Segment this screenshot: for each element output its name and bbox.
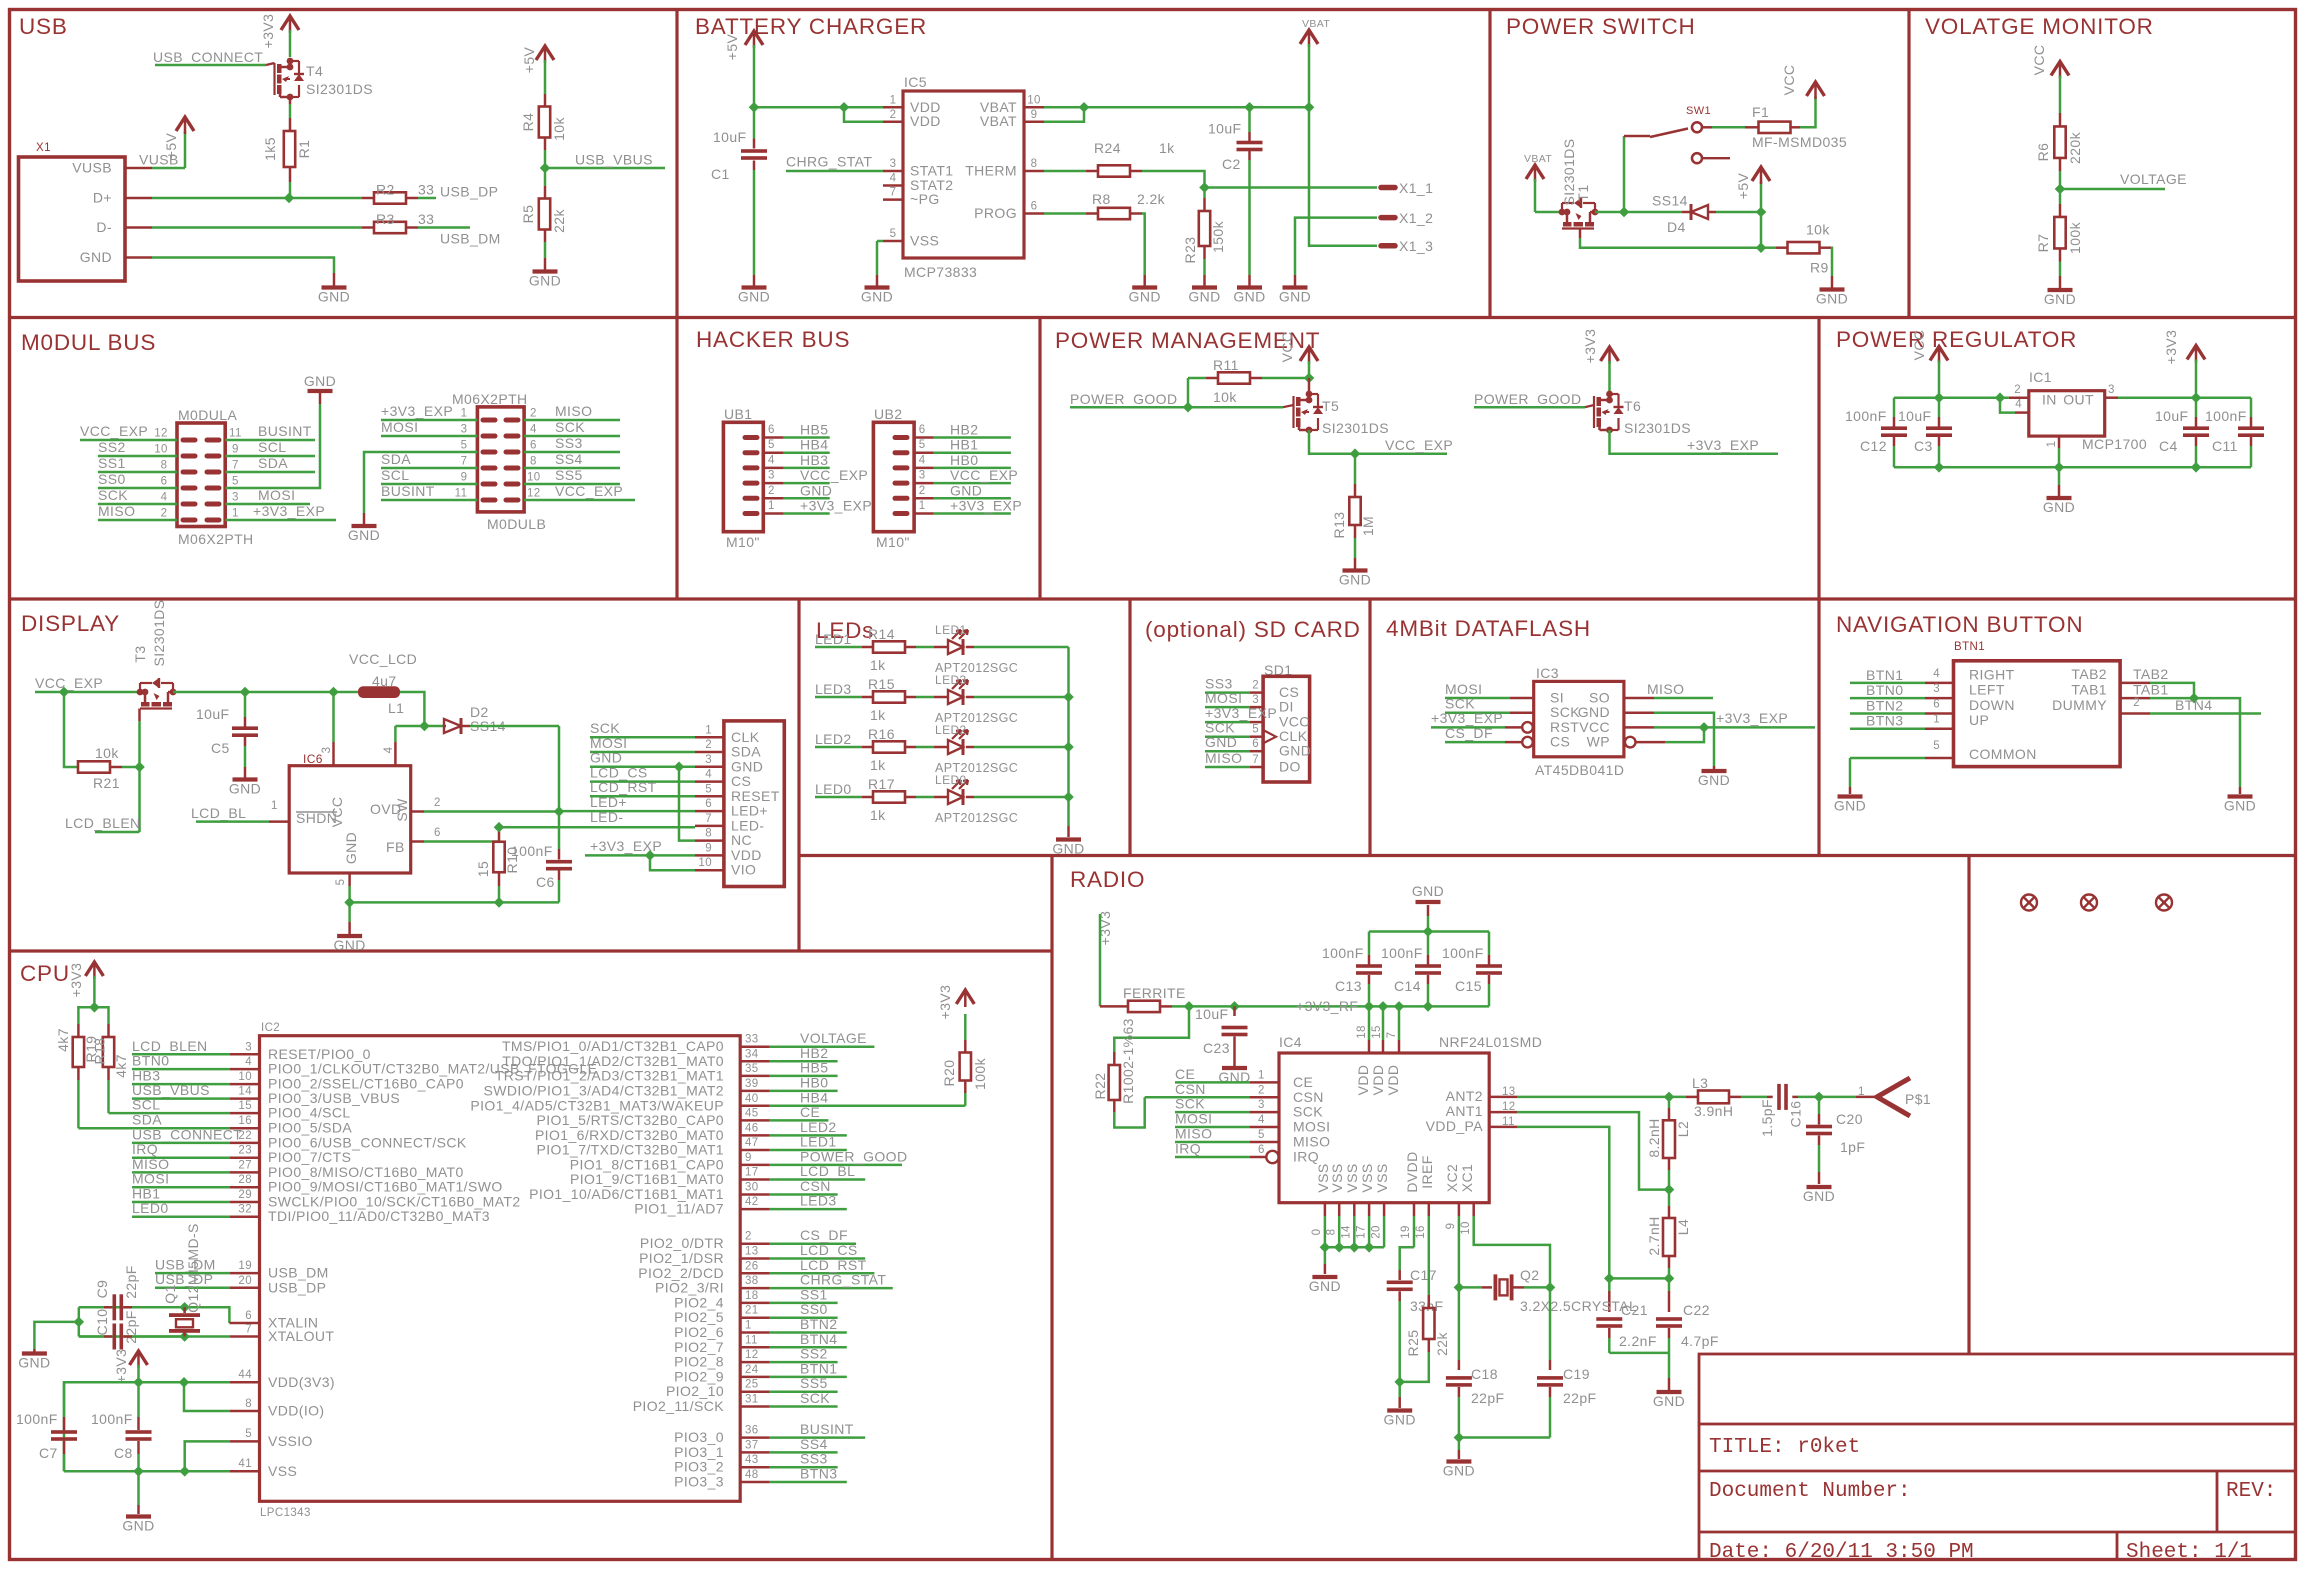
svg-text:ANT1: ANT1 [1446,1103,1483,1119]
svg-text:4: 4 [245,1056,252,1068]
pin IC2 36 / wire BUSINT [740,1436,769,1439]
pin IC4 VSS 14 [1353,1203,1356,1216]
svg-text:USB: USB [19,14,68,39]
node C17/R25 junction [1394,1377,1405,1388]
pin IC2 1 / wire BTN2 [740,1331,769,1334]
svg-text:2: 2 [890,109,897,121]
svg-text:SS2: SS2 [98,439,126,455]
svg-text:7: 7 [245,1324,252,1336]
svg-text:R16: R16 [868,726,895,742]
svg-text:SCK: SCK [590,720,620,736]
svg-text:1: 1 [745,1320,752,1332]
svg-text:PIO2_2/DCD: PIO2_2/DCD [638,1265,724,1281]
svg-text:4: 4 [1258,1114,1265,1126]
supply VBAT arrow [1300,30,1318,44]
svg-text:+3V3: +3V3 [1582,329,1598,364]
svg-text:C20: C20 [1836,1111,1863,1127]
pin IC2 2 / wire CS_DF [740,1242,769,1245]
wire XC2 to C18 [1458,1287,1461,1360]
section border CPU/RADIO [1050,856,1053,1560]
svg-text:DVDD: DVDD [1404,1151,1420,1192]
resistor R21 10k [64,692,77,767]
svg-text:10: 10 [698,857,712,869]
svg-text:2: 2 [705,739,712,751]
pin IC4 VDD 15 [1382,1006,1385,1040]
svg-text:5: 5 [1933,740,1940,752]
svg-text:M06X2PTH: M06X2PTH [452,391,528,407]
pin IC4 VSS 20 [1383,1203,1386,1216]
svg-text:4.7pF: 4.7pF [1681,1333,1719,1349]
capacitor C8 100nF [137,1382,140,1417]
svg-text:SS4: SS4 [555,451,583,467]
transistor T5 SI2301DS [1308,378,1311,394]
svg-text:GND: GND [1698,772,1730,788]
svg-text:CPU: CPU [20,961,70,986]
capacitor C9 22pF [79,1306,104,1309]
ground GND (CPU) [137,1471,140,1505]
svg-text:C11: C11 [2212,438,2238,454]
svg-text:COMMON: COMMON [1969,746,2037,762]
ground GND (R5) [533,269,558,273]
pin IC2 48 / wire BTN3 [740,1481,769,1484]
svg-text:GND: GND [348,527,380,543]
svg-text:MOSI: MOSI [132,1171,169,1187]
svg-text:2: 2 [2014,384,2021,396]
svg-text:LEFT: LEFT [1969,682,2005,698]
svg-text:19: 19 [1400,1225,1412,1239]
node VCC_EXP/R21 junction [59,687,70,698]
pin IC4 2 CSN / wire CSN [1145,1096,1250,1099]
wire SW1 to F1 [1702,126,1712,129]
svg-text:LED2: LED2 [800,1119,837,1135]
svg-text:C7: C7 [39,1445,58,1461]
svg-text:13: 13 [1502,1086,1516,1098]
svg-text:BTN4: BTN4 [800,1331,837,1347]
svg-text:GND: GND [18,1355,50,1371]
svg-text:33: 33 [418,182,434,198]
svg-text:VUSB: VUSB [72,160,112,176]
svg-text:SS1: SS1 [800,1286,828,1302]
pin IC2 45 / wire CE [740,1119,769,1122]
svg-text:R9: R9 [1810,260,1829,276]
svg-text:HACKER BUS: HACKER BUS [696,327,850,352]
svg-text:RST: RST [1550,719,1579,735]
svg-text:+3V3_EXP: +3V3_EXP [253,503,325,519]
svg-text:CS_DF: CS_DF [800,1227,848,1243]
svg-text:+3V3: +3V3 [260,14,276,49]
svg-text:CSN: CSN [800,1178,831,1194]
pin IC2 21 / wire SS0 [740,1316,769,1319]
svg-text:6: 6 [919,424,926,436]
svg-text:1M: 1M [1360,516,1376,536]
svg-text:3: 3 [705,754,712,766]
wire TAB to GND [2194,698,2240,787]
svg-text:(optional) SD CARD: (optional) SD CARD [1145,617,1361,642]
svg-text:100nF: 100nF [2205,408,2247,424]
svg-text:USB_DP: USB_DP [440,184,498,200]
capacitor C4 10uF [2195,398,2198,417]
svg-text:SS5: SS5 [800,1375,828,1391]
section border SD/DATAFLASH [1368,599,1371,856]
svg-text:TAB1: TAB1 [2133,682,2169,698]
svg-text:TAB2: TAB2 [2133,666,2169,682]
svg-text:Date: 6/20/11 3:50 PM: Date: 6/20/11 3:50 PM [1709,1541,1974,1564]
svg-text:VIO: VIO [731,862,756,878]
resistor R3 [362,226,374,229]
svg-text:GND: GND [343,832,359,864]
svg-text:10uF: 10uF [1195,1006,1229,1022]
svg-text:1: 1 [890,95,897,107]
svg-text:100nF: 100nF [511,843,553,859]
svg-text:16: 16 [1415,1225,1427,1239]
svg-text:C22: C22 [1683,1302,1710,1318]
svg-text:SS1: SS1 [98,455,126,471]
svg-text:9: 9 [461,472,468,484]
svg-text:MOSI: MOSI [1293,1119,1330,1135]
svg-text:15: 15 [238,1100,252,1112]
svg-text:SS0: SS0 [800,1301,828,1317]
wire output rail [2118,396,2251,399]
resistor R6 220k [2059,113,2062,127]
svg-text:+3V3: +3V3 [113,1349,129,1384]
svg-text:5: 5 [245,1428,252,1440]
svg-text:M0DULA: M0DULA [178,407,237,423]
svg-text:CHRG_STAT: CHRG_STAT [786,154,872,170]
ground GND (C23) [1222,1066,1247,1070]
wire LED- net [494,822,505,833]
svg-text:Document Number:: Document Number: [1709,1480,1911,1503]
mount hole symbol 2 [2081,895,2097,911]
svg-text:C19: C19 [1563,1366,1590,1382]
wire R5 to GND [544,242,547,258]
svg-text:IREF: IREF [1419,1155,1435,1189]
svg-text:L2: L2 [1675,1121,1691,1137]
pin UB2 5 / wire HB1 [895,450,907,455]
svg-text:CS: CS [1550,734,1570,750]
svg-text:LED0: LED0 [815,781,852,797]
ground GND (R7) [2048,288,2073,292]
svg-text:36: 36 [745,1425,759,1437]
svg-text:LED+: LED+ [590,794,627,810]
LCD connector [724,721,784,887]
svg-text:1: 1 [919,500,926,512]
svg-text:SS4: SS4 [800,1436,828,1452]
pin IC1 GND 1 [2058,436,2061,448]
pin IC2 9 / wire POWER_GOOD [740,1164,769,1167]
wire MISO (flash) [1624,697,1654,700]
svg-text:12: 12 [154,428,168,440]
supply +5V (VUSB) [176,117,194,131]
svg-text:IRQ: IRQ [132,1141,158,1157]
svg-text:Q2: Q2 [1520,1267,1539,1283]
svg-text:GND: GND [1653,1393,1685,1409]
supply +3V3 (T6) [1601,347,1619,361]
inductor L2 8.2nH [1668,1097,1671,1108]
IC U IC5 MCP73833 [903,91,1024,258]
svg-text:GND: GND [1188,289,1220,305]
crystal Q2 3.2X2.5CRYSTAL [1454,1282,1465,1293]
svg-text:IC3: IC3 [1536,665,1559,681]
svg-text:16: 16 [238,1115,252,1127]
pin X1 VUSB [125,167,152,170]
wire T4 source to R1 [289,97,292,104]
ground GND (C20) [1807,1185,1832,1189]
svg-text:ANT2: ANT2 [1446,1088,1483,1104]
pin IC2 18 / wire SS1 [740,1302,769,1305]
pin IC5 STAT1 3 [883,170,903,173]
svg-text:MISO: MISO [98,503,135,519]
svg-text:1: 1 [1858,1086,1865,1098]
svg-text:2: 2 [919,485,926,497]
supply +3V3 (pullups) [85,962,103,976]
svg-text:6: 6 [530,440,537,452]
capacitor C1 10uF [753,107,756,138]
resistor R19 4k7 [78,1007,94,1024]
svg-text:1: 1 [271,800,278,812]
svg-text:4: 4 [161,492,168,504]
svg-text:UB1: UB1 [724,406,752,422]
pin IC1 4 [2015,411,2029,414]
svg-text:VDD: VDD [1385,1065,1401,1096]
node X1_1 junction [1199,182,1210,193]
svg-text:VCC_EXP: VCC_EXP [950,467,1018,483]
wire to antenna pin [1819,1096,1856,1099]
svg-text:D+: D+ [93,190,112,206]
svg-text:10: 10 [154,444,168,456]
svg-text:MISO: MISO [1205,750,1242,766]
svg-text:C15: C15 [1455,978,1482,994]
ground GND (C18/C19) [1458,1438,1461,1451]
svg-text:100nF: 100nF [16,1411,58,1427]
svg-text:MOSI: MOSI [1205,690,1242,706]
svg-text:GND: GND [1412,883,1444,899]
svg-text:T5: T5 [1322,398,1339,414]
svg-text:47: 47 [745,1137,759,1149]
svg-text:IRQ: IRQ [1175,1141,1201,1157]
section border USB/BATTERY [675,10,678,600]
svg-text:LED+: LED+ [731,803,768,819]
mount hole symbol 1 [2021,895,2037,911]
pin IC4 19 DVDD [1413,1203,1416,1216]
svg-text:GND: GND [1384,1412,1416,1428]
pin LCD 3 GND [695,766,724,769]
capacitor C7 100nF [63,1382,66,1417]
ground GND (crystal) [22,1351,47,1355]
svg-text:3: 3 [2108,384,2115,396]
svg-text:VCC: VCC [1579,719,1610,735]
svg-text:SDA: SDA [258,455,288,471]
pin IC2 40 / wire HB4 [740,1105,769,1108]
svg-text:IC1: IC1 [2029,369,2052,385]
svg-text:VDD: VDD [731,847,762,863]
svg-text:VSS: VSS [268,1463,297,1479]
svg-text:POWER_GOOD: POWER_GOOD [1474,391,1581,407]
capacitor C2 10uF [1248,107,1251,132]
svg-text:15: 15 [475,861,491,877]
svg-text:NAVIGATION BUTTON: NAVIGATION BUTTON [1836,612,2083,637]
svg-text:VCC_EXP: VCC_EXP [800,467,868,483]
section border HACKER/POWER MGMT [1038,318,1041,600]
svg-text:12: 12 [745,1349,759,1361]
svg-text:USB_CONNECT: USB_CONNECT [153,49,263,65]
supply +3V3 (T4) [281,16,299,30]
svg-text:22pF: 22pF [1563,1390,1597,1406]
svg-text:HB0: HB0 [800,1074,828,1090]
svg-text:39: 39 [745,1078,759,1090]
svg-text:SWDIO/PIO1_3/AD4/CT32B1_MAT2: SWDIO/PIO1_3/AD4/CT32B1_MAT2 [484,1082,724,1098]
svg-text:VOLTAGE: VOLTAGE [800,1030,867,1046]
wire VSS rail [64,1470,230,1473]
svg-text:GND: GND [1443,1463,1475,1479]
svg-text:7: 7 [1386,1032,1398,1039]
svg-text:FB: FB [386,839,405,855]
svg-text:10: 10 [1027,95,1041,107]
fuse F1 MF-MSMD035 [1759,122,1791,133]
ground GND (X1_2) [1283,285,1308,289]
pin IC6 GND 5 [348,873,351,886]
svg-text:LED0: LED0 [935,773,967,787]
svg-text:3: 3 [768,470,775,482]
wire input rail [1894,396,2009,399]
svg-text:VCC: VCC [1781,65,1797,96]
svg-text:+5V: +5V [724,33,740,60]
pin LCD 5 RESET [695,795,724,798]
svg-text:42: 42 [745,1196,759,1208]
svg-text:R23: R23 [1182,237,1198,264]
svg-text:3: 3 [890,158,897,170]
svg-text:4MBit DATAFLASH: 4MBit DATAFLASH [1386,616,1591,641]
svg-text:1k5: 1k5 [262,137,278,161]
svg-text:C10: C10 [94,1309,110,1336]
svg-text:T6: T6 [1624,398,1641,414]
svg-text:PIO1_11/AD7: PIO1_11/AD7 [634,1201,724,1217]
supply VCC (regulator) [1930,347,1948,361]
svg-text:CS_DF: CS_DF [1445,725,1493,741]
capacitor C3 10uF [1938,398,1941,417]
svg-text:27: 27 [238,1159,252,1171]
capacitor C11 100nF [2250,398,2253,417]
node pullup junction [89,1002,100,1013]
svg-text:CSN: CSN [1293,1089,1324,1105]
svg-text:R25: R25 [1405,1330,1421,1357]
crystal circuit: wire XTALIN net [79,1307,230,1323]
diode D4 SS14 [1628,211,1682,214]
capacitor C12 100nF [1893,398,1896,417]
svg-text:GND: GND [1816,291,1848,307]
svg-text:BTN2: BTN2 [1866,698,1903,714]
svg-text:LED0: LED0 [132,1200,169,1216]
svg-text:SCL: SCL [132,1097,160,1113]
section border row3 bottom [799,854,2296,857]
pin X1_2 [1381,215,1395,221]
pin LCD 1 CLK [695,736,724,739]
svg-text:5: 5 [919,439,926,451]
pin IC5 ~PG 7 [883,198,903,201]
svg-text:1: 1 [705,724,712,736]
IC IC1 MCP1700 [2029,391,2105,436]
svg-text:5: 5 [335,879,347,886]
pin UB1 6 / wire HB5 [745,435,757,440]
svg-text:RESET/PIO0_0: RESET/PIO0_0 [268,1046,371,1062]
wire +3V3_RF rail [1189,1005,1489,1008]
wire +3V3_EXP net [1610,430,1779,454]
pin IC4 9 XC2 [1458,1203,1461,1216]
svg-text:LCD_CS: LCD_CS [800,1242,858,1258]
pin BTN1 TAB2 [2120,682,2150,685]
svg-text:VBAT: VBAT [980,113,1017,129]
pin X1_1 [1381,185,1395,191]
svg-text:PIO2_4: PIO2_4 [674,1294,724,1310]
transistor T6 SI2301DS [1606,391,1613,398]
pin IC2 35 / wire HB5 [740,1075,769,1078]
svg-text:GND: GND [1309,1278,1341,1294]
svg-text:L1: L1 [388,700,404,716]
svg-text:Sheet: 1/1: Sheet: 1/1 [2126,1541,2252,1564]
svg-text:+5V: +5V [1735,172,1751,199]
svg-text:CLK: CLK [731,729,760,745]
pin X1 GND [125,256,152,259]
capacitor C13 100nF [1368,932,1371,956]
svg-text:18: 18 [1356,1025,1368,1039]
svg-text:7: 7 [1252,754,1259,766]
wire LED+ net [424,810,559,813]
svg-text:C8: C8 [114,1445,133,1461]
svg-text:SS3: SS3 [555,435,583,451]
ground GND (M0DULB pin5) [352,524,377,528]
svg-text:HB2: HB2 [950,422,978,438]
svg-text:+3V3_EXP: +3V3_EXP [1205,705,1277,721]
svg-text:SCK: SCK [555,419,585,435]
svg-text:PIO2_10: PIO2_10 [666,1383,724,1399]
svg-text:4: 4 [919,454,926,466]
svg-text:22pF: 22pF [123,1310,139,1344]
svg-text:L3: L3 [1692,1075,1708,1091]
svg-text:GND: GND [2044,291,2076,307]
pin IC2 30 / wire CSN [740,1193,769,1196]
svg-text:VCC: VCC [1279,714,1310,730]
svg-text:AT45DB041D: AT45DB041D [1535,762,1624,778]
pin LCD 7 LED- [695,825,724,828]
svg-text:14: 14 [1341,1225,1353,1239]
svg-text:2: 2 [1258,1084,1265,1096]
svg-text:R14: R14 [868,626,895,642]
svg-text:10: 10 [238,1071,252,1083]
svg-text:4: 4 [530,424,537,436]
pin UB1 4 / wire HB3 [745,465,757,470]
svg-text:X1_3: X1_3 [1399,238,1433,254]
svg-text:100nF: 100nF [1381,945,1423,961]
svg-text:41: 41 [238,1458,252,1470]
section border row1/row2 [10,316,2296,319]
svg-text:C3: C3 [1914,438,1933,454]
svg-text:PIO2_9: PIO2_9 [674,1368,724,1384]
svg-text:SCK: SCK [1550,704,1580,720]
svg-text:LED3: LED3 [935,673,967,687]
svg-text:PROG: PROG [974,205,1017,221]
wire display ground rail [350,901,559,904]
svg-text:SCK: SCK [98,487,128,503]
wire T3 gate to R21 [138,709,141,722]
wire pin4 branch [2000,398,2015,413]
svg-text:SI2301DS: SI2301DS [1624,420,1691,436]
svg-text:7: 7 [232,460,239,472]
svg-text:GND: GND [861,289,893,305]
svg-text:GND: GND [800,482,832,498]
wire USB_DM [418,226,470,229]
svg-text:5: 5 [232,476,239,488]
svg-text:PIO3_2: PIO3_2 [674,1459,724,1475]
svg-text:LED3: LED3 [815,681,852,697]
